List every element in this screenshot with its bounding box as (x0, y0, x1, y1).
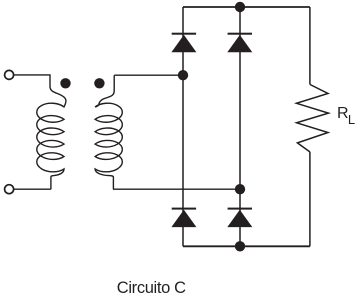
svg-text:L: L (348, 112, 355, 127)
svg-text:R: R (337, 105, 349, 122)
svg-text:Circuito C: Circuito C (117, 279, 186, 297)
